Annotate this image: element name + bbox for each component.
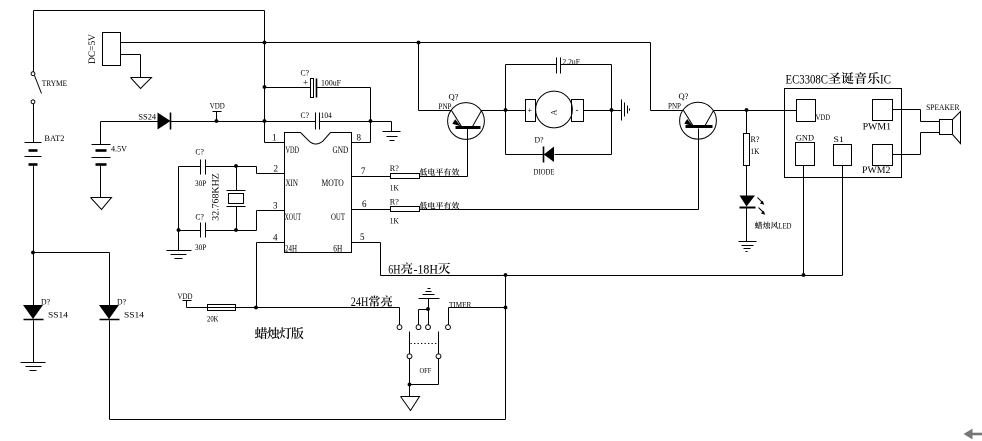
svg-text:C?: C? [301,68,310,78]
svg-text:VDD: VDD [816,112,830,122]
svg-text:C?: C? [195,212,204,222]
svg-text:1: 1 [272,133,277,143]
svg-text:32.768KHZ: 32.768KHZ [211,173,221,221]
svg-text:24H: 24H [285,245,297,255]
svg-text:1K: 1K [751,146,761,156]
svg-text:2.2uF: 2.2uF [562,57,580,67]
svg-text:6: 6 [362,199,367,209]
svg-text:TIMER: TIMER [449,301,472,310]
svg-text:PNP: PNP [668,101,681,111]
svg-text:C?: C? [301,110,310,120]
svg-text:SPEAKER: SPEAKER [926,102,960,112]
svg-text:6H: 6H [333,245,342,255]
svg-text:VDD: VDD [286,146,300,156]
svg-text:IC: IC [880,72,891,87]
svg-text:6H: 6H [388,262,400,277]
svg-text:Q?: Q? [679,91,689,101]
svg-text:24H: 24H [351,294,369,309]
svg-text:BAT2: BAT2 [44,133,64,143]
svg-text:S1: S1 [833,134,844,144]
svg-text:D?: D? [117,298,126,307]
svg-text:R?: R? [390,163,399,173]
svg-text:SS24: SS24 [138,112,156,122]
svg-text:PWM1: PWM1 [863,122,891,132]
svg-text:XIN: XIN [286,179,298,189]
svg-text:MOTO: MOTO [322,179,344,189]
svg-text:20K: 20K [207,314,219,324]
svg-text:104: 104 [321,110,333,120]
svg-text:3: 3 [273,201,278,211]
svg-text:D?: D? [41,298,50,307]
svg-text:100uF: 100uF [321,78,341,88]
svg-text:C?: C? [195,147,204,157]
svg-text:A: A [550,109,559,115]
svg-text:GND: GND [333,146,349,156]
svg-text:DC=5V: DC=5V [88,34,98,64]
svg-text:1K: 1K [390,183,400,193]
svg-text:4.5V: 4.5V [111,144,128,154]
svg-text:+: + [528,106,533,115]
svg-text:VDD: VDD [210,101,225,111]
svg-text:+: + [303,78,308,88]
svg-text:R?: R? [390,197,399,207]
svg-text:EC3308C: EC3308C [786,72,829,87]
svg-text:30P: 30P [195,178,206,188]
svg-text:GND: GND [796,133,814,143]
svg-text:LED: LED [779,221,792,231]
svg-text:SS14: SS14 [48,310,69,320]
svg-text:-: - [576,105,579,115]
svg-text:5: 5 [360,232,365,242]
svg-text:Q?: Q? [449,92,459,102]
svg-text:4: 4 [273,233,278,243]
svg-text:8: 8 [357,133,362,143]
svg-text:DIODE: DIODE [534,167,555,177]
svg-text:PNP: PNP [439,101,452,111]
svg-text:2: 2 [274,164,279,174]
svg-text:OUT: OUT [331,213,345,223]
svg-text:R?: R? [751,134,760,144]
svg-text:PWM2: PWM2 [862,165,890,175]
svg-text:-18H: -18H [414,262,438,277]
svg-text:SS14: SS14 [124,310,145,320]
svg-text:7: 7 [361,166,366,176]
svg-text:XOUT: XOUT [285,213,302,223]
svg-text:OFF: OFF [420,366,432,375]
svg-text:30P: 30P [195,242,206,252]
svg-text:TRYME: TRYME [42,78,67,88]
svg-text:1K: 1K [390,216,400,226]
svg-text:VDD: VDD [178,291,193,301]
svg-text:D?: D? [535,135,544,145]
